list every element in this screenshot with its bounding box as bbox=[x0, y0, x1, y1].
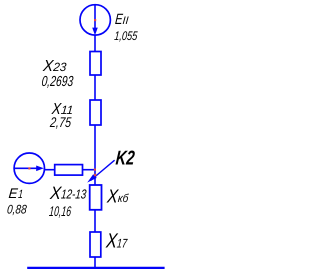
reactance X23 bbox=[90, 52, 101, 76]
svg-text:17: 17 bbox=[116, 237, 128, 251]
wire Xкб to X17 bbox=[94, 210, 96, 232]
reactance X12-13 (horizontal) bbox=[55, 165, 83, 176]
wire X17 to bus bbox=[94, 257, 96, 268]
red dot at arrow/wire crossing bbox=[94, 174, 96, 176]
reactance Xкб bbox=[90, 185, 102, 210]
node junction red dot bbox=[94, 169, 96, 171]
svg-text:23: 23 bbox=[52, 60, 67, 74]
svg-text:10,16: 10,16 bbox=[49, 203, 73, 219]
EMF source E_II (circle with down arrow) bbox=[80, 5, 110, 36]
fault arrow K2 bbox=[87, 160, 114, 182]
wire X23 to X11 bbox=[94, 75, 96, 100]
reactance X17 bbox=[90, 232, 101, 257]
ground bus bbox=[27, 267, 164, 269]
wire E_II to X23 bbox=[94, 35, 96, 52]
svg-text:0,2693: 0,2693 bbox=[41, 74, 74, 90]
svg-text:II: II bbox=[122, 15, 129, 27]
reactance X11 bbox=[90, 100, 101, 125]
wire X11 down to fault node bbox=[94, 125, 96, 185]
svg-text:0,88: 0,88 bbox=[7, 202, 28, 216]
EMF source E1 (circle with right arrow) bbox=[14, 153, 44, 183]
svg-text:K2: K2 bbox=[115, 148, 136, 170]
svg-text:1,055: 1,055 bbox=[114, 29, 138, 43]
red center dot of E_II bbox=[94, 19, 96, 21]
svg-text:кб: кб bbox=[117, 193, 129, 205]
svg-text:2,75: 2,75 bbox=[49, 114, 72, 130]
wire E1 to X12-13 bbox=[44, 169, 55, 171]
red center dot of E1 bbox=[28, 167, 30, 169]
wire X12-13 to fault node bbox=[83, 169, 96, 171]
svg-text:12-13: 12-13 bbox=[61, 187, 88, 202]
